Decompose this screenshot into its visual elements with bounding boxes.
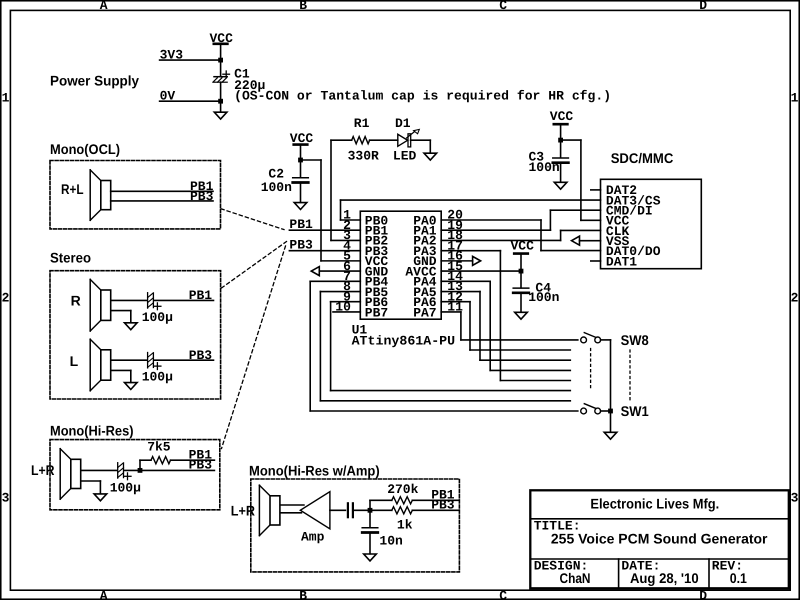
svg-text:VCC: VCC (511, 239, 535, 254)
svg-text:A: A (100, 588, 108, 600)
svg-text:PA7: PA7 (413, 305, 436, 320)
capacitor 100u R channel (147, 293, 149, 308)
wire C3 node to SD VCC (561, 139, 581, 141)
switch ellipsis dashed left (590, 349, 592, 389)
resistor R1 (352, 137, 370, 144)
wire PB0 riser to DAT3/CS (340, 200, 342, 220)
svg-text:Power Supply: Power Supply (50, 72, 139, 88)
title block divider date/rev (708, 559, 710, 588)
wire amp to coupling cap (330, 509, 346, 511)
svg-text:R1: R1 (354, 116, 370, 131)
wire PB2 riser to R1 (330, 140, 332, 240)
wire 0V to ground (220, 101, 222, 112)
svg-text:100μ: 100μ (142, 370, 173, 385)
svg-text:100μ: 100μ (110, 481, 141, 496)
svg-text:330R: 330R (348, 148, 379, 163)
wire PA0 pin20 to DAT0/DO (441, 219, 541, 221)
svg-text:PB1: PB1 (189, 288, 213, 303)
svg-text:1k: 1k (397, 518, 413, 533)
wire PA1 pin19 to CMD/DI (441, 229, 550, 231)
svg-text:SW1: SW1 (621, 403, 649, 419)
svg-text:0.1: 0.1 (730, 570, 747, 586)
pin 10 stub PB7 (333, 311, 360, 313)
wire riser to VCC pin5 (320, 160, 322, 261)
svg-text:Mono(OCL): Mono(OCL) (50, 141, 120, 157)
svg-text:PB3: PB3 (190, 189, 214, 204)
svg-text:1: 1 (791, 90, 799, 105)
ground arrow at pin 6 GND (311, 267, 319, 276)
capacitor C2 100n (293, 177, 309, 179)
capacitor C3 100n (553, 157, 569, 159)
IC U1 body (360, 211, 441, 319)
wire junction to 270k (369, 500, 371, 510)
pin stub DAT2 (591, 189, 601, 191)
svg-text:2: 2 (791, 290, 799, 305)
option box Mono(Hi-Res w/Amp) dashed (251, 479, 460, 572)
svg-text:D1: D1 (395, 116, 411, 131)
svg-text:DAT1: DAT1 (606, 254, 637, 269)
svg-text:SDC/MMC: SDC/MMC (611, 150, 674, 166)
wire PB3 to pin 4 (289, 250, 360, 252)
wire junction to 10n (369, 510, 371, 527)
speaker SP2 R channel (89, 279, 91, 331)
wire SW8 to common (601, 339, 611, 341)
capacitor 100u Hi-Res (117, 463, 119, 478)
svg-text:SW8: SW8 (621, 332, 649, 348)
node VCC/C2 junction (298, 158, 303, 163)
ground below C3 (554, 182, 567, 189)
svg-text:L+R: L+R (231, 502, 255, 518)
node 0V/C1- junction (218, 99, 223, 104)
wire cap to junction and PB3 (124, 469, 214, 471)
pin 3 stub PB2 (331, 239, 360, 241)
ground below C2 (294, 203, 307, 210)
wire SP2 return (111, 310, 130, 312)
svg-text:Electronic Lives Mfg.: Electronic Lives Mfg. (590, 495, 719, 511)
wire C4 to ground (520, 294, 522, 312)
wire SP5 to amp - (281, 512, 302, 514)
option box Stereo dashed (50, 271, 221, 399)
svg-text:ChaN: ChaN (560, 570, 591, 586)
svg-text:3: 3 (791, 490, 799, 505)
node junction cap/7k5 (138, 468, 143, 473)
node AVCC/C4 junction (519, 269, 524, 274)
speaker SP3 L channel (89, 339, 91, 391)
svg-text:L+R: L+R (31, 462, 55, 478)
svg-text:R: R (71, 293, 81, 309)
ground below D1 (424, 153, 437, 160)
svg-text:100n: 100n (528, 290, 559, 305)
svg-text:PB3: PB3 (189, 348, 213, 363)
wire PB6 pin9 to switch row 6 (331, 301, 361, 303)
wire cap to PB1 (154, 299, 214, 301)
svg-text:PB7: PB7 (365, 305, 388, 320)
wire 3V3 node to C1 (220, 60, 222, 77)
wire SP5 to amp + (281, 504, 304, 506)
svg-text:PB3: PB3 (431, 498, 455, 513)
option box Mono(OCL) dashed (50, 161, 221, 229)
svg-text:100n: 100n (529, 160, 560, 175)
capacitor C4 100n (513, 287, 529, 289)
wire junction to 7k5 (139, 460, 141, 470)
wire cap to junction (353, 509, 370, 511)
C1 plus sign (223, 73, 230, 75)
wire C3 to ground (560, 164, 562, 182)
title block divider 2 (530, 558, 789, 560)
pin 5 stub VCC (321, 260, 360, 262)
wire C2 to ground (300, 184, 302, 203)
ground SP3 (125, 383, 138, 390)
capacitor 10n (362, 527, 378, 529)
svg-text:D: D (699, 0, 707, 13)
speaker SP5 w/Amp (258, 485, 260, 535)
wire SW common to ground (610, 411, 612, 432)
svg-text:L: L (70, 353, 79, 369)
wire SW1 to common node (601, 410, 611, 412)
wire VCC node to pin5 riser (301, 159, 322, 161)
svg-text:B: B (299, 0, 307, 13)
title block divider design/date (618, 559, 620, 588)
wire PA3 pin17 to switch row 5 (441, 250, 500, 252)
wire SP4 return (81, 480, 100, 482)
switch SW8 (581, 337, 587, 343)
svg-text:VCC: VCC (550, 109, 574, 124)
svg-text:D: D (699, 588, 707, 600)
wire 7k5 to PB1 (171, 459, 215, 461)
D1 light arrow (407, 132, 415, 138)
ground below SW1 (604, 432, 617, 439)
callout dashed Stereo to PB3 (222, 242, 287, 289)
title block outer box (530, 490, 789, 588)
wire VCC to 3V3 node (220, 45, 222, 60)
capacitor 100u L channel (147, 353, 149, 368)
resistor 7k5 (151, 457, 171, 464)
node junction amp RC (368, 508, 373, 513)
svg-text:Aug 28, '10: Aug 28, '10 (630, 570, 699, 586)
speaker SP1 Mono(OCL) (89, 170, 91, 220)
wire SP3 to C coupling (111, 359, 147, 361)
svg-text:100n: 100n (261, 180, 292, 195)
capacitor coupling (amp) (347, 503, 349, 517)
speaker SP4 Mono(Hi-Res) (59, 449, 61, 499)
connector J1 SDC/MMC body (601, 179, 702, 268)
title block divider 1 (530, 518, 789, 520)
wire AVCC pin15 to C4 node (441, 270, 521, 272)
wire PA4 pin14 to switch row 4 (441, 280, 490, 282)
wire SP1 to PB1 (111, 190, 213, 192)
wire D1 to ground (411, 139, 431, 141)
option box Mono(Hi-Res) dashed (50, 440, 220, 510)
svg-text:Mono(Hi-Res w/Amp): Mono(Hi-Res w/Amp) (249, 463, 380, 479)
ground below 10n (364, 554, 377, 561)
op-amp U2 Amp triangle (300, 492, 330, 529)
ground SP4 (94, 494, 107, 501)
wire SP2 to C coupling (111, 299, 147, 301)
ground below C4 (515, 312, 528, 319)
pin stub DAT1 (591, 260, 601, 262)
wire VCC to C3 node (560, 126, 562, 158)
pin 1 stub PB0 (341, 219, 361, 221)
svg-text:3: 3 (2, 490, 10, 505)
resistor 1k (370, 509, 392, 511)
ground below C1 (214, 112, 227, 119)
callout dashed Mono(OCL) to PB1 (221, 209, 284, 230)
svg-text:100μ: 100μ (142, 310, 173, 325)
svg-text:B: B (299, 588, 307, 600)
wire PB5 pin8 to switch row 7 (320, 291, 360, 293)
wire 3V3 rail (160, 59, 221, 61)
svg-text:255 Voice PCM Sound Generator: 255 Voice PCM Sound Generator (551, 531, 768, 547)
switch SW1 (581, 408, 587, 414)
node VCC/C3 junction (558, 138, 563, 143)
switch ellipsis dashed right (629, 350, 631, 400)
svg-text:PB3: PB3 (189, 458, 213, 473)
wire SP1 to PB3 (111, 200, 213, 202)
node 3V3/C1+ junction (218, 58, 223, 63)
wire 270k to PB1 (412, 499, 459, 501)
svg-text:Mono(Hi-Res): Mono(Hi-Res) (50, 423, 134, 439)
svg-text:ATtiny861A-PU: ATtiny861A-PU (352, 333, 456, 348)
wire PB4 pin7 to SW1 (310, 280, 360, 282)
LED D1 (398, 134, 408, 146)
svg-text:(OS-CON or Tantalum cap is req: (OS-CON or Tantalum cap is required for … (234, 89, 611, 104)
wire 10n to ground (369, 534, 371, 554)
ground arrow at pin 16 GND (441, 260, 472, 262)
wire PB1 to pin 2 (289, 229, 360, 231)
svg-text:LED: LED (393, 148, 417, 163)
wire VCC to C4 node (520, 255, 522, 288)
wire PA5 pin13 to switch row 3 (441, 291, 480, 293)
svg-text:1: 1 (2, 90, 10, 105)
svg-text:7k5: 7k5 (147, 439, 171, 454)
wire SP3 return (111, 369, 130, 371)
wire C1 to 0V node (220, 82, 222, 101)
capacitor C1 polarized (214, 76, 227, 78)
svg-text:C: C (499, 0, 507, 13)
svg-text:A: A (100, 0, 108, 13)
svg-text:C: C (499, 588, 507, 600)
ground SP2 (125, 323, 138, 330)
wire VCC to C2 node (300, 146, 302, 178)
wire R1 to D1 (370, 139, 398, 141)
svg-text:10n: 10n (379, 534, 403, 549)
svg-text:R+L: R+L (61, 181, 84, 197)
svg-text:2: 2 (2, 290, 10, 305)
wire PA2 pin18 to CLK (441, 239, 560, 241)
svg-text:270k: 270k (387, 482, 418, 497)
wire 0V rail (160, 100, 221, 102)
wire cap to PB3 (154, 359, 214, 361)
resistor 270k (392, 497, 413, 504)
wire PA7 pin11 to SW8 (441, 311, 461, 313)
wire PA6 pin12 to switch row 2 (441, 301, 470, 303)
wire SP4 to C coupling (81, 469, 117, 471)
callout dashed Mono(Hi-Res) to PB3 (222, 246, 286, 449)
node SW common junction (608, 409, 613, 414)
svg-text:Amp: Amp (301, 530, 325, 545)
ground arrow at VSS (572, 236, 580, 245)
wire 1k to PB3 (412, 509, 459, 511)
svg-text:Stereo: Stereo (50, 249, 91, 265)
